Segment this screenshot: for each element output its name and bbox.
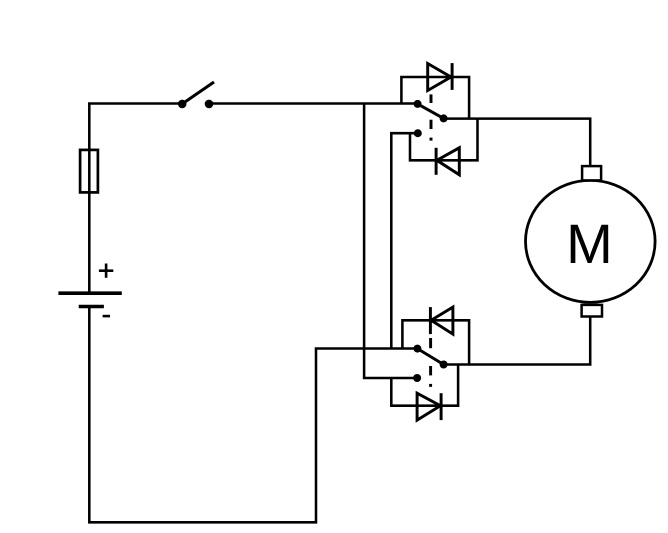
svg-text:M: M [566, 212, 613, 275]
